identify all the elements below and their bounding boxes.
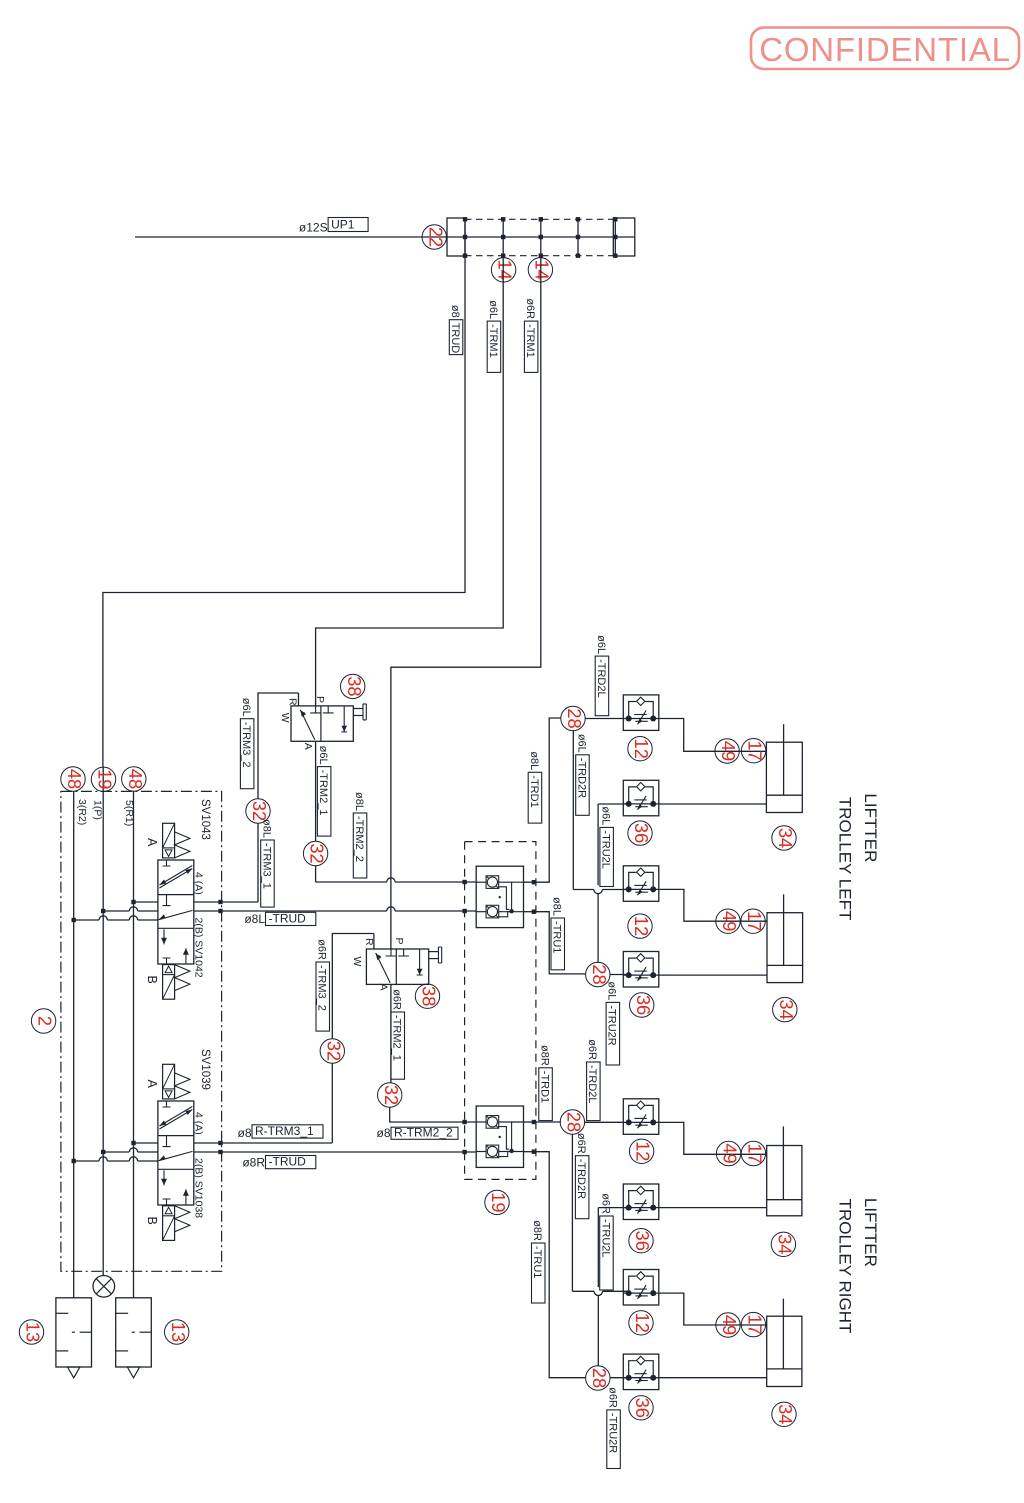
- wire port5 stub v2: [134, 1142, 158, 1144]
- wire port5 stub v1: [134, 901, 158, 903]
- balloon 36 r2L: [628, 821, 652, 845]
- cylinder 4: [767, 1316, 802, 1386]
- wire TRU2R feed: [610, 974, 629, 976]
- wire cyl1 rod feed: [659, 719, 767, 752]
- solenoid A SV1043: [163, 823, 175, 858]
- svg-text:19: 19: [95, 769, 116, 789]
- flow control TRU2L-R: [623, 1207, 659, 1209]
- svg-text:-TRU2R: -TRU2R: [606, 1005, 618, 1045]
- svg-text:-TRU2R: -TRU2R: [606, 1413, 618, 1453]
- flow control TRD2R: [623, 888, 659, 890]
- balloon 34 c1: [772, 826, 796, 850]
- wire ø8TRUD drop: [103, 256, 465, 767]
- svg-text:17: 17: [744, 911, 765, 931]
- balloon 2: [31, 1009, 55, 1033]
- wire ø8R-TRD1: [524, 1121, 536, 1123]
- balloon 34 c2: [773, 997, 797, 1021]
- svg-text:-TRU1: -TRU1: [551, 921, 563, 953]
- manifold dashed top: [465, 218, 613, 220]
- svg-text:ø6L: ø6L: [606, 981, 618, 1000]
- svg-text:ø8R: ø8R: [531, 1220, 543, 1241]
- balloon 13 left: [19, 1320, 43, 1344]
- wire ø8L-TRM3_1: [257, 823, 259, 902]
- svg-text:34: 34: [775, 828, 796, 848]
- wire ø6L-TRM1 drop: [316, 256, 504, 706]
- wire 1(P) line: [102, 767, 104, 1276]
- wire 3(R2) line: [73, 791, 75, 1297]
- balloon 17 c3: [741, 1141, 765, 1165]
- svg-text:B: B: [145, 976, 159, 984]
- svg-text:W: W: [279, 713, 291, 723]
- balloon 28 TRD-L: [561, 706, 585, 730]
- wire ø8R-TRM2_2: [390, 1108, 477, 1123]
- balloon 12 r3L: [628, 914, 652, 938]
- svg-text:17: 17: [745, 1143, 766, 1163]
- balloon 12 r1L: [628, 737, 652, 761]
- svg-text:19: 19: [488, 1192, 509, 1212]
- svg-text:-TRM1: -TRM1: [487, 324, 499, 358]
- solenoid B SV1042: [163, 965, 175, 1000]
- balloon 36 r4R: [629, 1396, 653, 1420]
- svg-text:-TRUD: -TRUD: [269, 912, 307, 926]
- svg-text:2(B) SV1042: 2(B) SV1042: [193, 918, 205, 978]
- svg-text:-TRU2L: -TRU2L: [599, 1219, 611, 1258]
- svg-text:-TRD1: -TRD1: [528, 775, 540, 807]
- svg-text:LIFTTER: LIFTTER: [861, 1198, 880, 1267]
- svg-text:36: 36: [632, 1231, 653, 1251]
- svg-text:ø8L: ø8L: [244, 912, 265, 926]
- svg-text:12: 12: [631, 916, 652, 936]
- wire port4 TRM3_1 stub: [194, 901, 258, 903]
- svg-text:12: 12: [632, 1313, 653, 1333]
- svg-text:ø8L: ø8L: [353, 792, 365, 811]
- wire ø6L-TRM2_1: [315, 741, 317, 841]
- wire TRD2R-R feed: [571, 1134, 573, 1291]
- svg-text:R: R: [287, 698, 299, 706]
- wire ø6R-TRM2_1: [390, 984, 392, 1082]
- svg-text:14: 14: [495, 260, 516, 280]
- svg-text:-TRM3_2: -TRM3_2: [240, 722, 252, 768]
- svg-text:ø8: ø8: [376, 1126, 390, 1140]
- svg-text:SV1043: SV1043: [199, 799, 211, 840]
- wire port1 stub v2: [103, 1151, 129, 1153]
- svg-text:49: 49: [719, 1315, 740, 1335]
- svg-text:22: 22: [425, 227, 446, 247]
- svg-text:4 (A): 4 (A): [193, 1112, 205, 1135]
- wire TRU2L feed: [598, 803, 629, 805]
- svg-text:ø6L: ø6L: [600, 806, 612, 825]
- svg-text:-TRU2L: -TRU2L: [600, 830, 612, 869]
- wire ø6R-TRM1 drop: [391, 256, 541, 949]
- balloon 49 c1: [715, 739, 739, 763]
- svg-text:ø6R: ø6R: [606, 1387, 618, 1408]
- valve bank dash-dot box: [61, 791, 222, 1271]
- flow control TRU2R: [623, 974, 659, 976]
- svg-text:A: A: [145, 838, 159, 847]
- balloon 34 c3: [771, 1232, 795, 1256]
- svg-text:ø6R: ø6R: [599, 1193, 611, 1214]
- svg-text:TROLLEY LEFT: TROLLEY LEFT: [836, 797, 855, 920]
- svg-text:14: 14: [532, 260, 553, 280]
- svg-text:-TRUD: -TRUD: [269, 1155, 307, 1169]
- flow control TRD2L: [623, 718, 659, 720]
- svg-text:A: A: [302, 743, 314, 750]
- wire TRD2L-R feed: [584, 1121, 623, 1123]
- svg-text:17: 17: [745, 1314, 766, 1334]
- svg-text:-TRM2_1: -TRM2_1: [391, 1015, 403, 1061]
- filter silencer left: [56, 1298, 92, 1367]
- svg-text:-TRM2_2: -TRM2_2: [353, 816, 365, 862]
- svg-text:28: 28: [589, 1368, 610, 1388]
- balloon 49 c2: [716, 909, 740, 933]
- check assembly left: [476, 866, 523, 927]
- valve body SV1039/SV1038: [158, 1101, 194, 1205]
- wire port2 TRUD-L: [194, 910, 387, 912]
- svg-text:W: W: [351, 957, 363, 967]
- manifold dashed bottom: [465, 255, 613, 257]
- filter silencer right: [116, 1298, 152, 1367]
- valve U38-left (3/2): [291, 706, 353, 741]
- svg-text:32: 32: [307, 843, 328, 863]
- wire port4 TRM3_1-R stub: [194, 1142, 332, 1144]
- svg-text:-TRD2R: -TRD2R: [575, 758, 587, 798]
- svg-text:ø8L: ø8L: [260, 819, 272, 838]
- svg-text:32: 32: [381, 1085, 402, 1105]
- svg-text:4 (A): 4 (A): [193, 872, 205, 895]
- wire TRU2L-R feed: [598, 1207, 628, 1209]
- svg-text:SV1039: SV1039: [199, 1049, 211, 1090]
- wire 5(R1) line: [133, 791, 135, 1297]
- svg-text:ø6L: ø6L: [317, 746, 329, 765]
- valve U38-right (3/2): [366, 949, 428, 984]
- svg-text:49: 49: [718, 741, 739, 761]
- svg-text:ø8: ø8: [237, 1126, 251, 1140]
- svg-text:-TRM3_1: -TRM3_1: [260, 843, 272, 889]
- wire ø6R-TRM3_2: [332, 934, 374, 1039]
- svg-text:-TRD1: -TRD1: [538, 1071, 550, 1103]
- svg-text:ø12S: ø12S: [299, 221, 328, 235]
- balloon 19: [91, 767, 115, 791]
- balloon 49 c3: [716, 1141, 740, 1165]
- balloon 49 c4: [716, 1313, 740, 1337]
- svg-text:R-TRM2_2: R-TRM2_2: [394, 1125, 453, 1139]
- svg-text:LIFTTER: LIFTTER: [861, 793, 880, 862]
- svg-text:28: 28: [564, 1112, 585, 1132]
- manifold left block: [447, 218, 465, 256]
- balloon 22: [422, 225, 446, 249]
- svg-text:48: 48: [125, 769, 146, 789]
- svg-text:ø8L: ø8L: [551, 897, 563, 916]
- svg-text:ø8L: ø8L: [528, 751, 540, 770]
- wire cyl4 rod feed: [659, 1293, 767, 1325]
- wire cyl1 base feed: [659, 803, 767, 805]
- svg-text:R-TRM3_1: R-TRM3_1: [255, 1124, 314, 1138]
- cylinder 2: [767, 913, 803, 983]
- svg-text:ø6L: ø6L: [487, 300, 499, 319]
- svg-text:P: P: [314, 696, 326, 703]
- balloon 12 r1R: [629, 1139, 653, 1163]
- balloon 32 TRM3-R: [320, 1039, 344, 1063]
- svg-text:-TRD2R: -TRD2R: [575, 1159, 587, 1199]
- wire ø8L-TRD1: [524, 881, 536, 883]
- svg-text:13: 13: [168, 1322, 189, 1342]
- svg-text:-TRD2L: -TRD2L: [586, 1065, 598, 1104]
- balloon 13 right: [165, 1320, 189, 1344]
- manifold mid line: [447, 236, 635, 238]
- balloon 14 right: [528, 258, 552, 282]
- svg-text:12: 12: [631, 739, 652, 759]
- wire port3 stub v1: [74, 919, 99, 921]
- svg-text:34: 34: [775, 1404, 796, 1424]
- wire ø8L-TRU1: [524, 911, 536, 913]
- svg-text:12: 12: [633, 1141, 654, 1161]
- svg-text:-TRM2_1: -TRM2_1: [317, 770, 329, 816]
- balloon 48 left: [61, 767, 85, 791]
- wire port3 stub v2: [74, 1160, 99, 1162]
- wire TRU2R-R feed: [610, 1377, 628, 1379]
- solenoid A SV1039: [163, 1064, 175, 1099]
- exhaust circle-X: [93, 1276, 115, 1298]
- svg-text:13: 13: [23, 1322, 44, 1342]
- wire cyl3 rod feed: [659, 1122, 767, 1154]
- svg-text:A: A: [378, 984, 390, 991]
- svg-text:P: P: [393, 938, 405, 945]
- balloon 28 TRU-L: [586, 962, 610, 986]
- svg-text:36: 36: [631, 823, 652, 843]
- cylinder 1: [766, 742, 802, 812]
- svg-text:ø8R: ø8R: [538, 1045, 550, 1066]
- balloon 36 r4L: [630, 993, 654, 1017]
- svg-text:A: A: [145, 1080, 159, 1089]
- manifold right block: [613, 218, 635, 256]
- svg-text:2(B) SV1038: 2(B) SV1038: [193, 1158, 205, 1218]
- svg-text:38: 38: [344, 676, 365, 696]
- check module dashed box: [465, 842, 536, 1180]
- svg-text:-TRM3_2: -TRM3_2: [316, 965, 328, 1011]
- balloon 38 left: [341, 674, 365, 698]
- flow control TRD2L-R: [623, 1121, 659, 1123]
- balloon 36 r2R: [629, 1229, 653, 1253]
- balloon 19 module: [485, 1190, 509, 1214]
- balloon 32 TRM2-R: [378, 1083, 402, 1107]
- balloon 34 c4: [772, 1402, 796, 1426]
- svg-text:ø6R: ø6R: [586, 1039, 598, 1060]
- svg-text:2: 2: [35, 1016, 56, 1026]
- svg-text:ø6R: ø6R: [391, 989, 403, 1010]
- svg-text:36: 36: [632, 1398, 653, 1418]
- wire cyl2 base feed: [659, 974, 767, 976]
- svg-text:1(P): 1(P): [92, 800, 104, 820]
- wire TRD2R feed: [572, 731, 574, 890]
- wire cyl3 base feed: [659, 1207, 767, 1209]
- manifold ticks and junctions: [464, 219, 466, 255]
- balloon 28 TRU-R: [586, 1366, 610, 1390]
- svg-text:TRUD: TRUD: [449, 323, 461, 354]
- wire ø8R-TRU1: [524, 1151, 536, 1153]
- valve body SV1043/SV1042: [158, 860, 194, 964]
- wire ø6L-TRM3_2: [258, 693, 299, 799]
- svg-text:R: R: [363, 938, 375, 946]
- svg-text:34: 34: [776, 999, 797, 1019]
- svg-text:B: B: [145, 1217, 159, 1225]
- svg-text:48: 48: [64, 769, 85, 789]
- svg-text:-TRD2L: -TRD2L: [595, 659, 607, 698]
- wire ø8R-TRM3_1 vert: [331, 1064, 333, 1144]
- svg-text:34: 34: [775, 1234, 796, 1254]
- svg-text:ø6L: ø6L: [595, 635, 607, 654]
- svg-text:28: 28: [564, 708, 585, 728]
- wire TRD2L feed: [585, 718, 623, 720]
- wire cyl4 base feed: [659, 1377, 767, 1379]
- svg-text:-TRM1: -TRM1: [524, 324, 536, 358]
- svg-text:36: 36: [633, 995, 654, 1015]
- svg-text:TROLLEY RIGHT: TROLLEY RIGHT: [836, 1199, 855, 1334]
- svg-text:ø8R: ø8R: [242, 1156, 265, 1170]
- svg-text:ø6R: ø6R: [524, 298, 536, 319]
- svg-text:-TRU1: -TRU1: [531, 1246, 543, 1278]
- balloon 14 left: [491, 258, 515, 282]
- svg-text:ø6L: ø6L: [240, 698, 252, 717]
- balloon 38 right: [415, 984, 439, 1008]
- confidential stamp: [751, 28, 1019, 70]
- balloon 17 c2: [741, 909, 765, 933]
- svg-text:ø6R: ø6R: [575, 1133, 587, 1154]
- svg-text:UP1: UP1: [331, 218, 355, 232]
- balloon 32 TRM2-L: [303, 841, 327, 865]
- flow control TRU2L: [623, 803, 659, 805]
- wire port1 stub v1: [103, 910, 129, 912]
- balloon 17 c4: [741, 1312, 765, 1336]
- svg-text:ø6L: ø6L: [575, 734, 587, 753]
- balloon 28 TRD-R: [560, 1110, 584, 1134]
- svg-text:49: 49: [719, 911, 740, 931]
- check assembly right: [476, 1106, 523, 1167]
- wire supply SUP1: [135, 236, 447, 238]
- wire ø8L-TRM2_2: [315, 866, 317, 882]
- svg-text:17: 17: [745, 741, 766, 761]
- solenoid B SV1038: [163, 1206, 175, 1241]
- flow control TRD2R-R: [623, 1292, 659, 1294]
- svg-text:32: 32: [323, 1041, 344, 1061]
- wire cyl2 rod feed: [659, 889, 767, 921]
- svg-text:ø6R: ø6R: [316, 939, 328, 960]
- flow control TRU2R-R: [623, 1377, 659, 1379]
- balloon 12 r3R: [629, 1311, 653, 1335]
- balloon 32 TRM3-L: [246, 799, 270, 823]
- svg-text:5(R1): 5(R1): [123, 800, 135, 826]
- svg-text:ø8: ø8: [449, 305, 461, 318]
- balloon 17 c1: [741, 739, 765, 763]
- svg-text:CONFIDENTIAL: CONFIDENTIAL: [759, 31, 1011, 68]
- balloon 48 right: [122, 767, 146, 791]
- svg-text:49: 49: [720, 1143, 741, 1163]
- svg-text:3(R2): 3(R2): [76, 799, 88, 825]
- cylinder 3: [767, 1146, 802, 1216]
- wire port2 TRUD-R: [194, 1151, 476, 1153]
- svg-text:38: 38: [419, 986, 440, 1006]
